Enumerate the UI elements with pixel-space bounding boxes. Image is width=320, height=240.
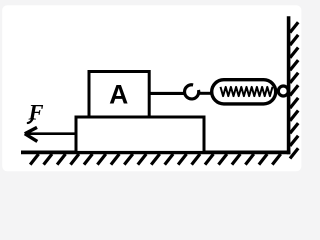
spring capsule <box>212 80 276 104</box>
rod from block A to hook <box>151 92 186 95</box>
block A <box>89 72 149 118</box>
svg-text:A: A <box>109 80 128 110</box>
white canvas panel <box>2 5 301 171</box>
spring coil <box>221 87 273 96</box>
wall <box>287 16 291 154</box>
label F foot serif tail <box>28 119 33 124</box>
link hook to spring <box>198 92 213 95</box>
wall hatching <box>290 22 298 158</box>
hook (open ring) <box>185 85 199 99</box>
force F arrow <box>25 127 76 141</box>
ground hatching <box>30 154 281 165</box>
lower block (cart) <box>76 117 204 152</box>
svg-text:F: F <box>28 99 44 124</box>
wall ring <box>278 86 288 96</box>
ground <box>21 150 290 154</box>
